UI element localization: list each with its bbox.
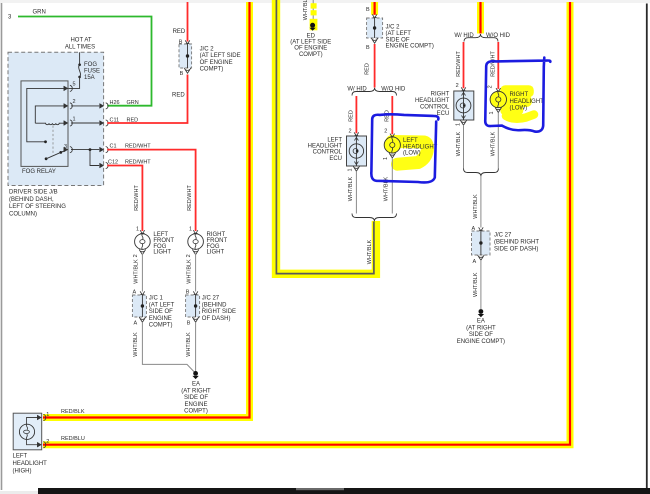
svg-text:SIDE OF: SIDE OF <box>469 332 493 338</box>
svg-text:SIDE OF: SIDE OF <box>184 395 208 401</box>
svg-text:EA: EA <box>192 382 200 388</box>
svg-text:WHT/BLK: WHT/BLK <box>186 332 192 357</box>
svg-text:W/O HID: W/O HID <box>486 33 511 39</box>
svg-text:OF DASH): OF DASH) <box>202 316 231 322</box>
svg-text:B: B <box>366 7 370 13</box>
svg-text:WHT/BLK: WHT/BLK <box>186 259 192 284</box>
svg-text:RED/WHT: RED/WHT <box>456 51 462 77</box>
junction connector J/C 2 (left) <box>179 40 241 78</box>
svg-text:A: A <box>134 321 138 327</box>
svg-text:B: B <box>180 71 184 77</box>
wire RED/BLK highlighted (left headlight high pin1 to top of page) <box>43 2 250 418</box>
svg-text:SIDE OF DASH): SIDE OF DASH) <box>494 247 538 253</box>
switch arm <box>45 150 66 160</box>
connector H26 <box>100 100 139 109</box>
svg-text:SIDE OF: SIDE OF <box>386 37 410 43</box>
svg-text:2: 2 <box>488 85 494 88</box>
svg-text:COMPT): COMPT) <box>184 409 208 415</box>
svg-text:ENGINE COMPT): ENGINE COMPT) <box>457 339 505 345</box>
svg-text:(AT RIGHT: (AT RIGHT <box>181 388 211 394</box>
svg-text:B: B <box>187 321 191 327</box>
wire RED/WHT C1 to right front fog <box>107 150 195 231</box>
svg-text:WHT/BLK: WHT/BLK <box>367 239 373 264</box>
lamp RIGHT FRONT FOG LIGHT <box>186 226 227 257</box>
wire RED below J/C2 <box>365 44 375 88</box>
coil <box>35 123 66 125</box>
svg-text:EA: EA <box>477 319 485 325</box>
svg-text:HEADLIGHT: HEADLIGHT <box>415 98 450 104</box>
svg-text:HEADLIGHT: HEADLIGHT <box>403 144 438 150</box>
wire RED C11 to J/C2 <box>107 75 187 124</box>
svg-text:2: 2 <box>46 439 49 445</box>
lamp RIGHT HEADLIGHT (LOW) <box>489 88 544 114</box>
ground EA (left) <box>181 371 211 415</box>
wire pin5 to switch contact <box>27 88 66 143</box>
svg-text:2: 2 <box>73 99 76 105</box>
connector C12 <box>100 160 152 169</box>
svg-text:J/C 1: J/C 1 <box>149 296 164 302</box>
wire pin2 to H26 <box>71 105 99 107</box>
svg-text:B: B <box>366 45 370 51</box>
svg-text:ENGINE: ENGINE <box>184 402 207 408</box>
wire WHT/BLK left fog to J/C1 <box>141 254 143 292</box>
junction connector J/C 27 (left) <box>186 290 236 327</box>
yellow highlight right headlight low <box>500 85 534 119</box>
svg-text:2: 2 <box>349 129 352 135</box>
wire fuse to relay pin 5 <box>68 77 80 89</box>
wire RED/WHT to right headlight low <box>488 42 499 89</box>
svg-text:RED: RED <box>365 63 371 75</box>
yellow highlight left headlight low <box>392 142 427 165</box>
svg-text:FOG RELAY: FOG RELAY <box>22 169 56 175</box>
wire WHT/BLK merge to J/C27 (right) <box>473 176 481 228</box>
svg-text:1: 1 <box>455 123 461 126</box>
svg-text:A: A <box>473 259 477 265</box>
svg-text:RED/WHT: RED/WHT <box>491 51 497 77</box>
svg-text:LIGHT: LIGHT <box>207 250 225 256</box>
svg-text:SIDE OF: SIDE OF <box>149 309 173 315</box>
svg-text:DRIVER SIDE J/B: DRIVER SIDE J/B <box>9 190 58 196</box>
armature dashed link <box>52 126 54 154</box>
svg-text:RED: RED <box>173 29 186 35</box>
svg-text:RIGHT: RIGHT <box>510 92 529 98</box>
wire WHT/BLK right fog to J/C27 <box>195 254 197 292</box>
svg-text:W/ HID: W/ HID <box>454 33 474 39</box>
pen circle around LEFT HEADLIGHT (LOW) <box>371 114 438 182</box>
node HOT AT ALL TIMES <box>65 38 95 51</box>
wire RED/BLU highlighted (left headlight high pin2 to top of page) <box>43 2 570 445</box>
split brace W HID / WO HID (right headlight) <box>454 33 510 42</box>
wire pin2 to coil <box>35 106 66 123</box>
pin 3 <box>64 144 73 153</box>
svg-text:(LOW): (LOW) <box>510 106 528 112</box>
svg-text:COMPT): COMPT) <box>299 52 323 58</box>
wire WHT/BLK highlighted (left headlight grounds) <box>276 0 376 274</box>
wire WHT/BLK ecu to merge <box>348 171 357 214</box>
svg-text:WHT/BLK: WHT/BLK <box>303 0 309 20</box>
svg-text:H26: H26 <box>110 100 120 106</box>
svg-text:W/ HID: W/ HID <box>347 86 367 92</box>
headlight LEFT HEADLIGHT (HIGH) <box>13 413 48 475</box>
svg-text:FOG: FOG <box>84 62 97 68</box>
wire RED/WHT to right headlight control ecu <box>456 42 464 89</box>
svg-text:RED: RED <box>172 92 185 98</box>
svg-text:RIGHT: RIGHT <box>431 91 450 97</box>
wire WHT/BLK right ecu to merge <box>456 125 464 169</box>
svg-text:COMPT): COMPT) <box>200 67 224 73</box>
pin 1 <box>64 117 76 127</box>
svg-text:CONTROL: CONTROL <box>313 150 343 156</box>
wire highlighted feed to right headlight split <box>477 2 484 34</box>
connector C1 <box>100 144 152 153</box>
svg-text:(BEHIND DASH,: (BEHIND DASH, <box>9 197 54 203</box>
svg-text:(HIGH): (HIGH) <box>13 469 32 475</box>
svg-text:RED/WHT: RED/WHT <box>134 185 140 211</box>
svg-text:HEADLIGHT: HEADLIGHT <box>13 461 48 467</box>
junction block driver side J/B <box>8 52 104 217</box>
svg-text:WHT/BLK: WHT/BLK <box>348 176 354 201</box>
wire to fuse <box>79 52 81 63</box>
svg-text:RED/BLK: RED/BLK <box>61 409 85 415</box>
svg-text:WHT/BLK: WHT/BLK <box>473 194 479 219</box>
svg-text:LEFT: LEFT <box>13 454 28 460</box>
svg-text:(BEHIND: (BEHIND <box>202 302 227 308</box>
svg-text:(AT LEFT: (AT LEFT <box>386 31 412 37</box>
svg-text:J/C 2: J/C 2 <box>200 47 215 53</box>
pen circle around RIGHT HEADLIGHT (LOW) <box>485 58 550 132</box>
svg-text:5: 5 <box>73 82 76 88</box>
svg-text:RED/WHT: RED/WHT <box>187 185 193 211</box>
svg-text:WHT/BLK: WHT/BLK <box>491 131 497 156</box>
junction connector J/C 2 (right) <box>366 7 434 51</box>
svg-text:OF ENGINE: OF ENGINE <box>200 60 233 66</box>
junction connector J/C 27 (right) <box>472 226 540 265</box>
svg-text:RIGHT SIDE: RIGHT SIDE <box>202 309 236 315</box>
svg-text:2: 2 <box>186 254 192 257</box>
svg-text:(BEHIND RIGHT: (BEHIND RIGHT <box>494 240 539 246</box>
wire RED to left headlight low <box>384 96 392 135</box>
svg-text:(AT LEFT SIDE: (AT LEFT SIDE <box>200 53 241 59</box>
lamp LEFT FRONT FOG LIGHT <box>133 226 174 257</box>
svg-text:COMPT): COMPT) <box>149 323 173 329</box>
svg-text:ECU: ECU <box>329 156 342 162</box>
svg-text:3: 3 <box>64 144 67 150</box>
svg-text:ENGINE: ENGINE <box>149 316 172 322</box>
svg-text:HOT AT: HOT AT <box>70 38 91 44</box>
ground ED with WHT/BLK label highlighted <box>290 0 331 58</box>
svg-text:LEFT OF STEERING: LEFT OF STEERING <box>9 204 66 210</box>
svg-text:ALL TIMES: ALL TIMES <box>65 45 95 51</box>
svg-text:WHT/BLK: WHT/BLK <box>133 332 139 357</box>
junction connector J/C 1 <box>132 290 174 329</box>
svg-text:2: 2 <box>384 129 387 135</box>
svg-text:CONTROL: CONTROL <box>420 105 450 111</box>
wire GRN <box>18 17 152 106</box>
svg-text:1: 1 <box>46 412 49 418</box>
svg-text:J/C 27: J/C 27 <box>202 296 220 302</box>
lamp LEFT HEADLIGHT (LOW) <box>383 134 438 160</box>
svg-text:1: 1 <box>347 168 353 171</box>
wire WHT/BLK J/C27 to ground EA (right) <box>473 260 481 309</box>
svg-text:(LOW): (LOW) <box>403 151 421 157</box>
connector C11 <box>100 117 139 126</box>
merge brace (right headlight grounds) <box>464 169 499 177</box>
svg-text:1: 1 <box>73 117 76 123</box>
relay FOG RELAY <box>21 81 68 175</box>
wire WHT/BLK right lamp to merge <box>491 113 499 169</box>
pin 5 <box>64 82 76 92</box>
svg-text:1: 1 <box>189 226 192 232</box>
ecu RIGHT HEADLIGHT CONTROL ECU <box>415 87 474 126</box>
svg-text:2: 2 <box>456 83 459 89</box>
wire WHT/BLK to ground EA (left) <box>133 322 196 373</box>
svg-text:GRN: GRN <box>33 10 46 16</box>
svg-text:1: 1 <box>489 111 495 114</box>
svg-text:J/C 27: J/C 27 <box>494 233 512 239</box>
svg-text:(AT LEFT: (AT LEFT <box>149 302 175 308</box>
fuse FOG FUSE 15A <box>78 62 100 81</box>
pin 2 <box>64 99 76 109</box>
wire highlighted feed into J/C 2 (top) <box>371 2 378 15</box>
wire RED J/C2 top to page top <box>187 2 189 42</box>
merge brace (left headlight grounds) <box>352 214 397 222</box>
svg-text:LEFT: LEFT <box>327 137 342 143</box>
svg-text:WHT/BLK: WHT/BLK <box>473 272 479 297</box>
svg-text:RED/BLU: RED/BLU <box>61 436 85 442</box>
wire pin3 to C1, junction to C12 <box>71 148 99 165</box>
svg-text:W/O HID: W/O HID <box>381 86 406 92</box>
svg-text:J/C 2: J/C 2 <box>386 24 401 30</box>
svg-text:HEADLIGHT: HEADLIGHT <box>308 144 343 150</box>
svg-text:COLUMN): COLUMN) <box>9 211 37 217</box>
ecu LEFT HEADLIGHT CONTROL ECU <box>308 132 367 171</box>
ground EA (right) <box>457 309 505 345</box>
svg-text:RED: RED <box>385 110 391 122</box>
wire WHT/BLK lamp to merge <box>384 158 393 214</box>
svg-text:FUSE: FUSE <box>84 68 100 74</box>
svg-text:LIGHT: LIGHT <box>153 250 171 256</box>
split brace W HID / WO HID (left headlight) <box>347 86 406 95</box>
svg-text:LEFT: LEFT <box>403 138 418 144</box>
svg-text:HEADLIGHT: HEADLIGHT <box>510 99 545 105</box>
svg-text:WHT/BLK: WHT/BLK <box>456 131 462 156</box>
wire pin1 to C11 <box>71 122 99 124</box>
svg-text:GRN: GRN <box>127 100 139 106</box>
svg-text:1: 1 <box>383 157 389 160</box>
wire RED to left headlight control ecu <box>349 96 357 135</box>
svg-text:15A: 15A <box>84 75 95 81</box>
svg-text:ED: ED <box>307 33 316 39</box>
svg-text:(AT RIGHT: (AT RIGHT <box>466 325 496 331</box>
svg-text:ENGINE COMPT): ENGINE COMPT) <box>386 44 434 50</box>
svg-text:2: 2 <box>133 254 139 257</box>
svg-text:(AT LEFT SIDE: (AT LEFT SIDE <box>290 40 331 46</box>
wire RED/WHT C12 to left front fog <box>107 166 142 232</box>
svg-text:WHT/BLK: WHT/BLK <box>133 259 139 284</box>
svg-text:RED: RED <box>349 110 355 122</box>
svg-text:OF ENGINE: OF ENGINE <box>294 46 327 52</box>
svg-text:1: 1 <box>136 226 139 232</box>
